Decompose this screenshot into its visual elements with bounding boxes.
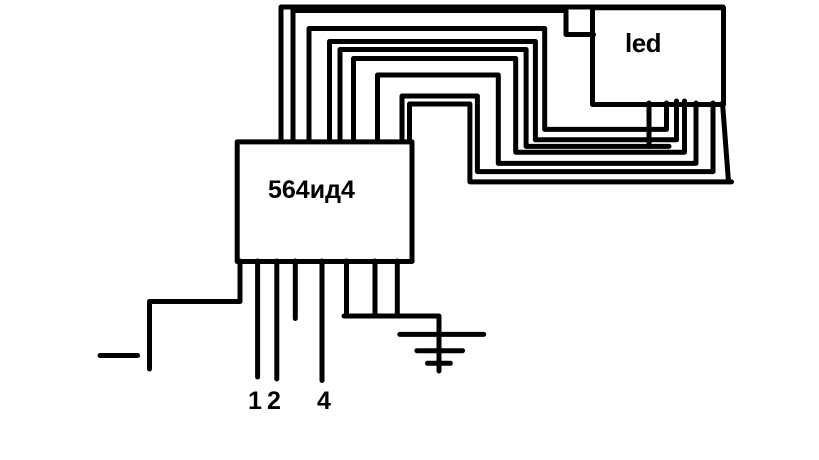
LED display box	[593, 8, 724, 105]
IC bottom pin D	[293, 261, 298, 319]
wire W8: IC pin to led bottom right corner	[410, 104, 732, 182]
wire W2: IC pin to led bottom pin 1	[309, 29, 667, 142]
IC bottom pin B (label 1)	[255, 261, 260, 377]
IC bottom pin F to ground bus	[344, 261, 349, 314]
pin number label 2	[267, 387, 281, 415]
wire W0: IC pin to led top edge	[281, 7, 723, 141]
led bottom stub pin	[647, 103, 652, 147]
wire W5: IC pin to led bottom pin 4	[354, 59, 685, 153]
wire W1: IC pin to led left side	[293, 11, 594, 142]
ground bar 3	[428, 361, 451, 366]
terminal dash (minus)	[100, 353, 138, 358]
ground bar 1	[400, 332, 484, 337]
wire W4: IC pin to led bottom pin 3	[340, 50, 669, 147]
svg-text:led: led	[625, 28, 661, 58]
IC bottom pin C (label 2)	[274, 261, 279, 379]
IC U1 box 564ид4	[237, 142, 412, 262]
svg-text:2: 2	[267, 387, 281, 415]
IC bottom pin G to ground bus	[373, 261, 378, 314]
IC bottom pin E (label 4)	[320, 261, 325, 381]
IC bottom pin H to ground bus	[395, 261, 400, 314]
svg-text:1: 1	[248, 387, 262, 415]
pin number label 1	[248, 387, 262, 415]
IC U1 value label 564ид4	[268, 176, 355, 204]
svg-text:564ид4: 564ид4	[268, 176, 355, 204]
pin number label 4	[317, 387, 331, 415]
svg-text:4: 4	[317, 387, 331, 415]
LED label led	[625, 28, 661, 58]
ground bus wire	[344, 316, 439, 371]
wire W7: IC pin to led bottom pin 6	[402, 96, 713, 172]
ground bar 2	[417, 348, 463, 353]
wire W8 riser: diagonal up to led corner	[723, 103, 729, 182]
wire W6: IC pin to led bottom pin 5	[378, 75, 697, 163]
wire: IC bottom pin A to left terminal	[150, 261, 241, 369]
wire W3: IC pin to led bottom pin 2	[330, 42, 677, 142]
